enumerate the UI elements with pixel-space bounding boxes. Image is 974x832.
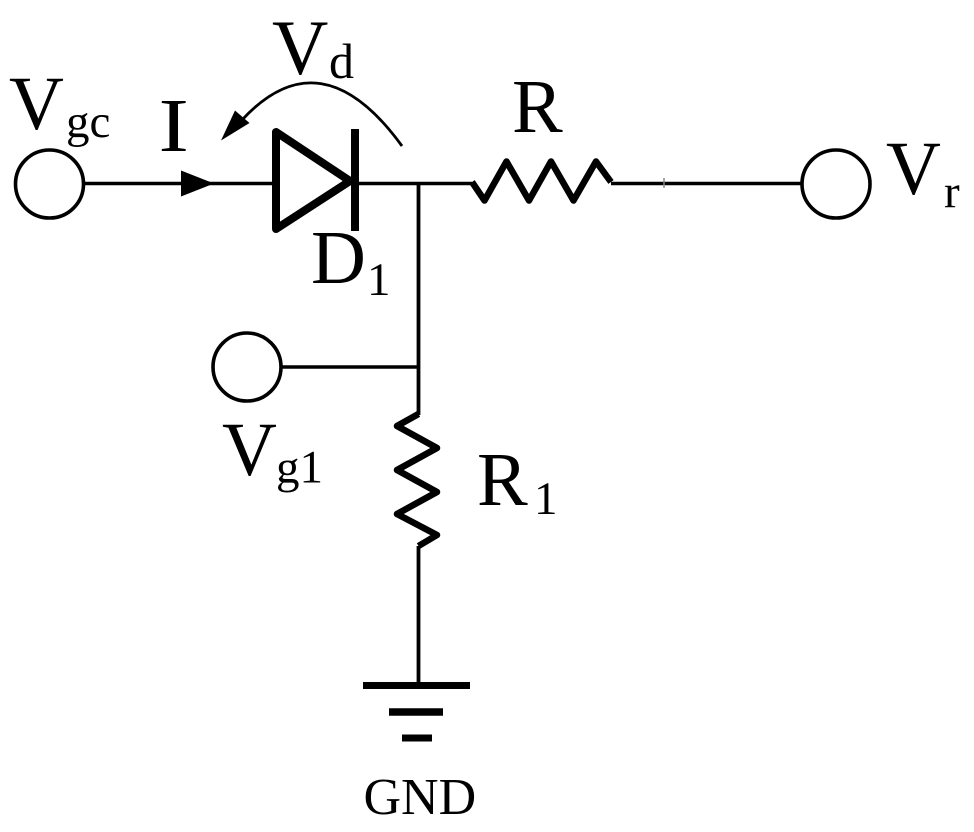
label Vd — [272, 4, 354, 91]
diode D1 — [276, 129, 355, 231]
wire resistor to Vr — [611, 182, 802, 186]
wire Vg1 to node — [281, 365, 420, 369]
label I — [159, 84, 189, 168]
label Vgc — [9, 62, 110, 148]
svg-text:R: R — [477, 438, 528, 522]
label Vr — [886, 127, 960, 218]
wire input — [84, 182, 276, 186]
svg-text:d: d — [329, 33, 354, 89]
svg-text:R: R — [512, 65, 563, 149]
junction vertical wire — [417, 182, 421, 415]
svg-text:V: V — [9, 62, 64, 146]
wire R1 to ground — [417, 546, 421, 686]
label R1 — [477, 438, 558, 525]
label Vg1 — [222, 408, 323, 494]
resistor R — [472, 162, 611, 201]
svg-text:D: D — [311, 216, 366, 300]
terminal Vg1 — [213, 333, 281, 401]
current arrow — [181, 171, 214, 197]
svg-text:r: r — [944, 166, 960, 218]
svg-text:GND: GND — [364, 769, 477, 826]
svg-text:gc: gc — [66, 96, 110, 148]
resistor R1 — [397, 414, 437, 546]
svg-text:g1: g1 — [276, 442, 323, 494]
label D1 — [311, 216, 391, 306]
Vd arc arrow — [242, 83, 402, 146]
svg-text:V: V — [222, 408, 277, 492]
svg-text:V: V — [886, 127, 941, 211]
svg-text:V: V — [272, 4, 328, 91]
ground symbol — [363, 686, 470, 739]
wire diode to resistor — [355, 182, 472, 186]
svg-text:1: 1 — [367, 254, 391, 306]
svg-text:1: 1 — [534, 473, 558, 525]
tick artifact — [663, 178, 665, 188]
terminal Vgc — [16, 150, 84, 218]
terminal Vr — [802, 150, 870, 218]
svg-text:I: I — [159, 84, 189, 168]
